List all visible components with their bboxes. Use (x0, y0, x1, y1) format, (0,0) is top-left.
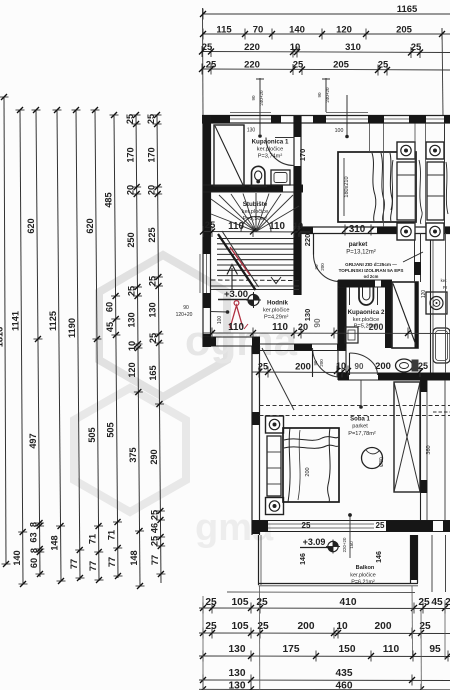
svg-text:140: 140 (289, 25, 305, 36)
svg-text:120: 120 (127, 362, 137, 377)
svg-text:505: 505 (106, 422, 116, 437)
svg-text:Balkon: Balkon (356, 565, 375, 571)
svg-text:2: 2 (445, 597, 450, 608)
svg-text:120+20: 120+20 (176, 312, 193, 318)
svg-text:Soba 1: Soba 1 (350, 417, 370, 423)
svg-text:25: 25 (149, 510, 159, 520)
svg-text:25: 25 (418, 597, 430, 608)
svg-text:45: 45 (431, 597, 443, 608)
svg-text:200: 200 (375, 621, 392, 632)
svg-text:Ø80: Ø80 (379, 457, 385, 467)
svg-text:100: 100 (335, 128, 344, 134)
svg-text:1125: 1125 (48, 311, 58, 331)
svg-text:170: 170 (125, 147, 135, 162)
svg-text:110: 110 (272, 322, 288, 333)
svg-text:310: 310 (345, 42, 361, 53)
svg-text:620: 620 (85, 218, 95, 233)
svg-text:25: 25 (376, 521, 385, 530)
svg-text:95: 95 (429, 644, 441, 655)
svg-text:25: 25 (257, 621, 269, 632)
svg-text:110: 110 (228, 221, 244, 232)
svg-text:200: 200 (320, 263, 325, 271)
svg-text:60: 60 (105, 302, 115, 312)
svg-text:130: 130 (247, 128, 256, 134)
svg-text:25: 25 (293, 60, 304, 71)
svg-text:25: 25 (258, 362, 268, 372)
svg-text:GRIJANI ZID d=25cm —: GRIJANI ZID d=25cm — (345, 262, 397, 267)
svg-text:71: 71 (88, 534, 98, 544)
svg-text:140: 140 (12, 550, 22, 565)
svg-text:25: 25 (418, 361, 428, 371)
svg-text:10: 10 (336, 621, 348, 632)
svg-text:45: 45 (105, 322, 115, 332)
svg-text:130: 130 (127, 312, 137, 327)
svg-text:Hodnik: Hodnik (267, 300, 289, 307)
svg-text:25: 25 (126, 286, 136, 296)
svg-text:25: 25 (205, 621, 217, 632)
svg-text:od 2cm: od 2cm (364, 274, 379, 279)
svg-text:P=4,29m²: P=4,29m² (264, 315, 289, 321)
svg-text:46: 46 (150, 523, 160, 533)
svg-text:+3.00: +3.00 (224, 289, 248, 300)
svg-text:63: 63 (29, 532, 39, 542)
svg-text:77: 77 (150, 555, 160, 565)
svg-text:148: 148 (129, 550, 139, 565)
svg-text:148: 148 (50, 535, 60, 550)
svg-text:60: 60 (29, 558, 39, 568)
svg-text:ker.pločice: ker.pločice (257, 147, 283, 153)
svg-text:200: 200 (375, 361, 391, 372)
svg-text:220+20: 220+20 (342, 537, 347, 552)
svg-text:P=6,21m²: P=6,21m² (351, 580, 375, 586)
svg-text:205: 205 (333, 60, 350, 71)
svg-text:parket: parket (349, 241, 368, 248)
svg-text:P=3,74m²: P=3,74m² (258, 154, 283, 160)
svg-text:90: 90 (314, 264, 319, 270)
svg-text:20: 20 (147, 185, 157, 195)
svg-text:310: 310 (349, 224, 366, 235)
svg-text:25: 25 (147, 276, 157, 286)
svg-text:100: 100 (217, 316, 223, 325)
svg-text:ker.pločice: ker.pločice (263, 308, 289, 314)
svg-text:10: 10 (127, 341, 137, 351)
svg-text:200: 200 (319, 359, 324, 367)
svg-text:240+20: 240+20 (259, 90, 264, 106)
svg-text:ker.pločice: ker.pločice (350, 573, 375, 579)
svg-text:TOPLINSKI IZOLIRAN 5A EPS: TOPLINSKI IZOLIRAN 5A EPS (339, 268, 404, 273)
svg-text:77: 77 (69, 559, 79, 569)
svg-text:ker.pločice: ker.pločice (242, 209, 268, 215)
svg-text:435: 435 (336, 668, 353, 679)
svg-text:485: 485 (104, 192, 114, 207)
svg-text:150: 150 (349, 541, 354, 549)
svg-text:146: 146 (300, 553, 307, 565)
svg-text:+3.09: +3.09 (303, 537, 326, 547)
svg-text:Kupaonica 2: Kupaonica 2 (348, 309, 385, 316)
svg-text:25: 25 (146, 114, 156, 124)
svg-text:220: 220 (303, 234, 312, 247)
svg-text:71: 71 (107, 530, 117, 540)
svg-text:105: 105 (232, 597, 249, 608)
svg-text:130: 130 (229, 668, 246, 679)
svg-text:170: 170 (298, 149, 307, 162)
svg-text:375: 375 (128, 447, 138, 462)
svg-text:25: 25 (202, 42, 213, 53)
svg-text:25: 25 (150, 536, 160, 546)
svg-text:290: 290 (149, 449, 159, 464)
svg-text:146: 146 (376, 551, 383, 563)
svg-text:25: 25 (302, 521, 311, 530)
svg-text:ker.: ker. (441, 278, 448, 283)
svg-text:25: 25 (148, 333, 158, 343)
svg-text:220: 220 (244, 60, 260, 71)
svg-text:1141: 1141 (10, 311, 20, 331)
svg-text:P=17,78m²: P=17,78m² (348, 431, 376, 437)
svg-text:120: 120 (336, 25, 352, 36)
svg-text:90: 90 (313, 318, 322, 328)
svg-text:170: 170 (146, 147, 156, 162)
svg-text:25: 25 (206, 60, 217, 71)
svg-text:70: 70 (253, 25, 264, 36)
svg-text:Kupaonica 1: Kupaonica 1 (252, 139, 289, 146)
svg-text:250: 250 (126, 232, 136, 247)
svg-text:105: 105 (232, 621, 249, 632)
svg-text:Stubište: Stubište (243, 201, 268, 208)
svg-text:410: 410 (340, 597, 357, 608)
svg-text:220: 220 (244, 42, 260, 53)
svg-text:1816: 1816 (0, 327, 5, 347)
svg-text:200: 200 (295, 362, 311, 373)
svg-text:115: 115 (216, 25, 232, 36)
svg-text:25: 25 (256, 597, 268, 608)
svg-text:90: 90 (317, 92, 322, 98)
svg-text:200: 200 (369, 322, 384, 332)
svg-text:25: 25 (205, 597, 217, 608)
svg-text:90: 90 (251, 95, 256, 101)
svg-text:20: 20 (126, 185, 136, 195)
svg-text:200: 200 (298, 621, 315, 632)
svg-text:25: 25 (378, 60, 389, 71)
svg-text:620: 620 (26, 218, 36, 233)
svg-text:20: 20 (298, 322, 308, 332)
svg-text:8: 8 (29, 522, 39, 527)
svg-text:130: 130 (229, 681, 246, 690)
svg-text:77: 77 (88, 561, 98, 571)
svg-text:77: 77 (107, 557, 117, 567)
svg-text:110: 110 (383, 644, 400, 655)
svg-text:90: 90 (355, 362, 364, 371)
svg-text:165: 165 (148, 365, 158, 380)
svg-text:25: 25 (411, 42, 422, 53)
svg-text:130: 130 (229, 644, 246, 655)
svg-text:505: 505 (87, 427, 97, 442)
svg-text:P=5,50m²: P=5,50m² (243, 216, 268, 222)
svg-text:200: 200 (305, 467, 311, 476)
svg-text:P=13,12m²: P=13,12m² (346, 250, 376, 256)
svg-text:360: 360 (426, 445, 432, 454)
svg-text:parket: parket (352, 424, 368, 430)
svg-text:205: 205 (396, 25, 413, 36)
svg-text:175: 175 (283, 644, 300, 655)
svg-text:150: 150 (339, 644, 356, 655)
svg-text:10: 10 (290, 42, 301, 53)
svg-text:225: 225 (147, 227, 157, 242)
svg-text:460: 460 (336, 681, 353, 690)
svg-text:120: 120 (421, 290, 427, 299)
svg-text:90: 90 (313, 360, 318, 366)
svg-text:25: 25 (125, 114, 135, 124)
svg-text:130: 130 (303, 309, 312, 322)
svg-text:90: 90 (183, 305, 189, 311)
svg-text:240+20: 240+20 (325, 87, 330, 103)
svg-text:110: 110 (269, 221, 285, 232)
svg-text:1190: 1190 (67, 318, 77, 338)
svg-text:8: 8 (29, 548, 39, 553)
svg-text:497: 497 (28, 433, 38, 448)
svg-text:110: 110 (228, 322, 244, 333)
svg-text:130: 130 (148, 302, 158, 317)
svg-text:1165: 1165 (397, 4, 418, 15)
svg-text:180x210: 180x210 (344, 176, 350, 197)
